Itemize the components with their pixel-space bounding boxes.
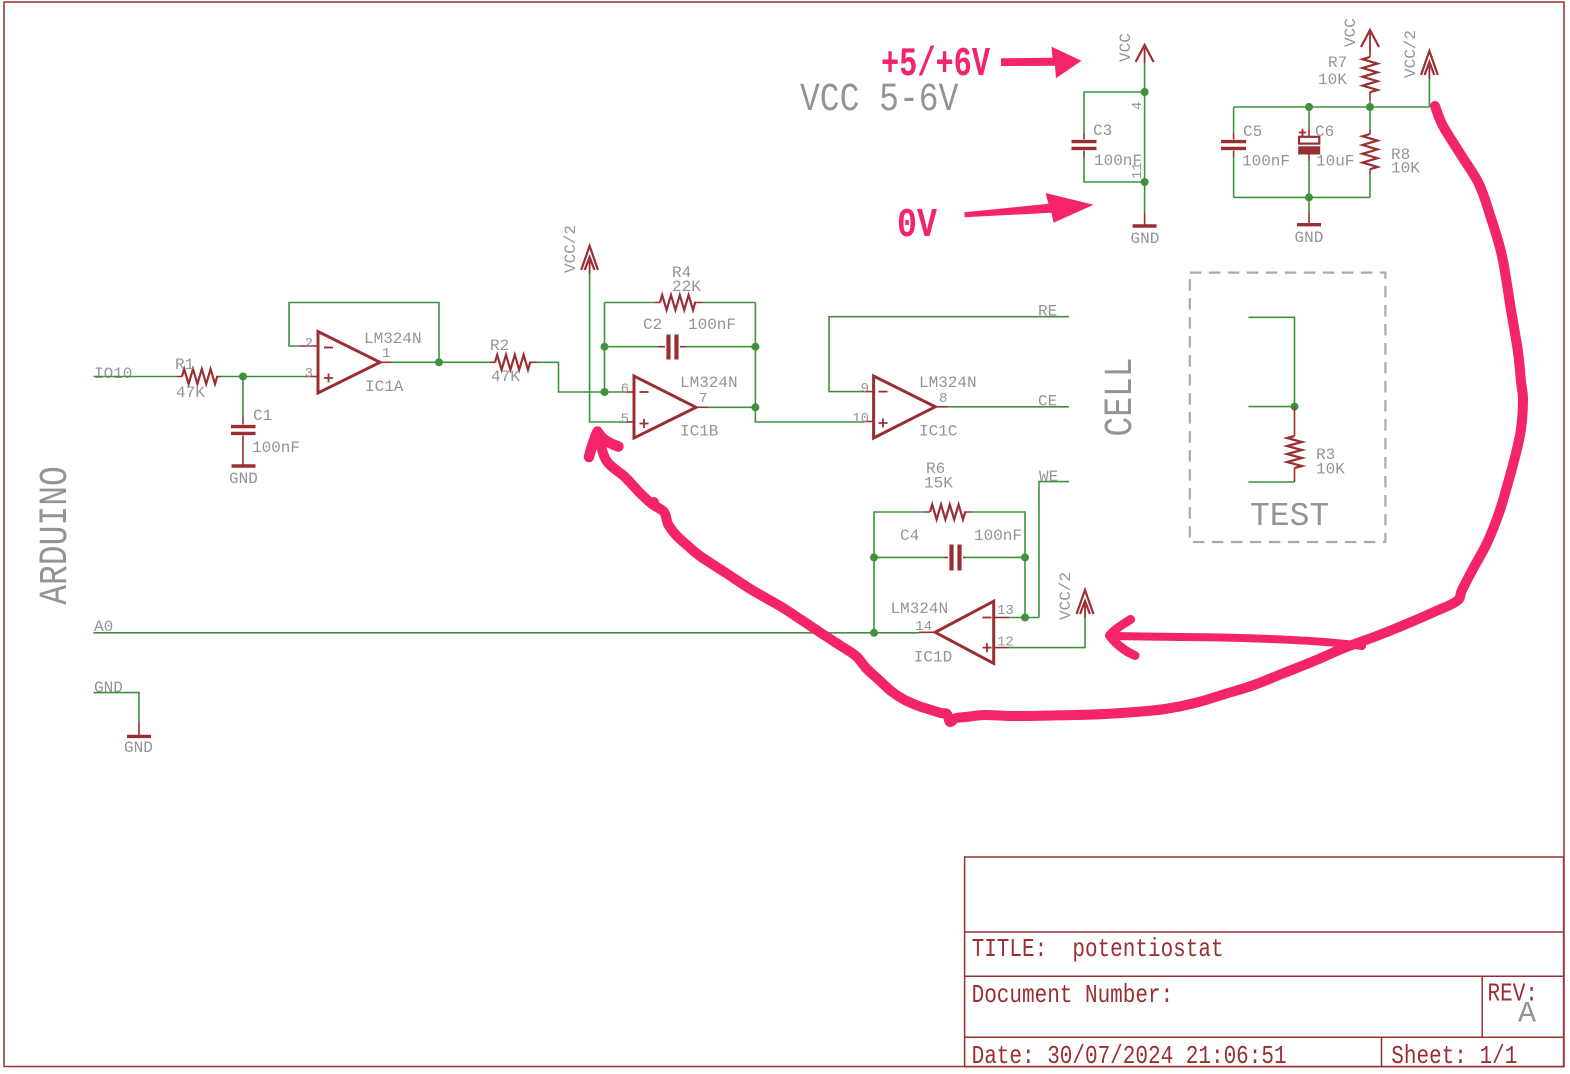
svg-text:2: 2	[305, 336, 313, 352]
supply VCC/2 symbol (top right)	[1421, 51, 1438, 79]
op-amp IC1B	[624, 376, 708, 438]
wire C3 loop left branch	[1084, 92, 1145, 182]
svg-text:C1: C1	[253, 407, 272, 425]
svg-text:10K: 10K	[1391, 160, 1420, 178]
resistor R3	[1287, 407, 1302, 482]
svg-text:IC1C: IC1C	[919, 423, 957, 441]
svg-text:Sheet: 1/1: Sheet: 1/1	[1391, 1042, 1517, 1072]
svg-text:R2: R2	[490, 337, 509, 355]
node junction bottom rail	[1305, 193, 1313, 201]
svg-text:VCC: VCC	[1342, 18, 1360, 47]
wire VCC/2 down to rail	[1428, 79, 1430, 107]
wire IC1C pin9 to RE	[829, 317, 1069, 392]
wire VCC/2 down to IC1B pin5	[590, 274, 624, 422]
svg-text:GND: GND	[1131, 230, 1160, 248]
TEST cell dashed box	[1190, 273, 1386, 542]
wire C6 branch	[1308, 107, 1310, 197]
svg-text:Date: 30/07/2024 21:06:51: Date: 30/07/2024 21:06:51	[972, 1042, 1287, 1072]
svg-text:8: 8	[939, 391, 947, 407]
wire junction to IC1D output	[874, 632, 919, 634]
wire IC1B output to node	[708, 406, 755, 408]
wire test cell WE	[1248, 481, 1294, 483]
annotation branch arrow to VCC/2	[1110, 620, 1363, 656]
wire IC1A feedback loop	[289, 303, 439, 363]
wire left loop vertical (R6/C4)	[874, 512, 1025, 633]
svg-text:VCC/2: VCC/2	[1402, 30, 1420, 78]
op-amp IC1D (mirrored)	[919, 601, 1009, 663]
svg-text:LM324N: LM324N	[919, 374, 977, 392]
svg-text:LM324N: LM324N	[680, 374, 738, 392]
resistor R2	[490, 355, 537, 370]
svg-text:A0: A0	[94, 618, 113, 636]
svg-text:100nF: 100nF	[1242, 153, 1290, 171]
svg-text:C3: C3	[1093, 122, 1112, 140]
svg-text:7: 7	[699, 391, 707, 407]
svg-text:100nF: 100nF	[1094, 152, 1142, 170]
node junction C4 right	[1021, 553, 1029, 561]
svg-text:3: 3	[305, 366, 313, 382]
svg-text:GND: GND	[229, 470, 258, 488]
capacitor C6 (electrolytic)	[1299, 129, 1320, 161]
svg-text:WE: WE	[1039, 468, 1058, 486]
wire feedback top rail (R4)	[605, 302, 756, 304]
svg-text:IC1A: IC1A	[365, 378, 404, 396]
wire node to GND2	[1308, 197, 1310, 212]
node junction C4 left	[870, 553, 878, 561]
svg-text:R7: R7	[1328, 54, 1347, 72]
wire GND net	[94, 693, 140, 723]
svg-text:+5/+6V: +5/+6V	[881, 42, 990, 88]
wire node up to feedback rail	[604, 303, 606, 393]
ground symbol (below C3)	[1133, 213, 1157, 226]
svg-text:100nF: 100nF	[688, 316, 736, 334]
svg-text:CELL: CELL	[1098, 357, 1143, 436]
node junction VCC/C3 top	[1141, 88, 1149, 96]
capacitor C1	[231, 417, 256, 465]
svg-text:Document Number:: Document Number:	[972, 981, 1174, 1011]
svg-text:GND: GND	[1295, 229, 1324, 247]
svg-text:10uF: 10uF	[1316, 153, 1354, 171]
svg-text:10K: 10K	[1316, 461, 1345, 479]
svg-text:4: 4	[1130, 102, 1146, 110]
annotation arrow to GND	[965, 193, 1094, 223]
svg-text:14: 14	[915, 619, 932, 635]
capacitor C3	[1072, 133, 1097, 157]
capacitor C5	[1221, 133, 1246, 157]
node junction R1/C1	[239, 373, 247, 381]
wire C2 row	[605, 346, 756, 348]
svg-text:VCC/2: VCC/2	[1057, 572, 1075, 620]
node junction C2 right	[751, 343, 759, 351]
node junction IC1B output	[751, 403, 759, 411]
svg-text:C2: C2	[643, 316, 662, 334]
wire VCC to node	[1144, 63, 1146, 92]
wire R2 to IC1B input node	[537, 362, 605, 392]
svg-text:5: 5	[621, 412, 629, 428]
node junction IC1A output	[435, 358, 443, 366]
svg-text:CE: CE	[1038, 393, 1057, 411]
svg-text:1: 1	[382, 346, 390, 362]
capacitor C2	[658, 335, 686, 360]
svg-text:IO10: IO10	[94, 365, 132, 383]
node junction C6 top	[1305, 103, 1313, 111]
svg-text:100nF: 100nF	[974, 527, 1022, 545]
wire IC1C output CE	[948, 406, 1069, 408]
node junction C2 left	[601, 343, 609, 351]
wire A0 line	[94, 632, 875, 634]
node junction test cell	[1291, 403, 1299, 411]
node junction C3 bottom	[1141, 178, 1149, 186]
svg-text:22K: 22K	[672, 278, 701, 296]
wire bottom rail C5/C6/R8	[1234, 196, 1370, 198]
annotation arrow to VCC	[1001, 47, 1082, 78]
supply VCC/2 symbol (right of IC1D)	[1077, 590, 1094, 618]
op-amp IC1C	[864, 376, 948, 438]
svg-text:ARDUINO: ARDUINO	[33, 466, 78, 605]
svg-text:LM324N: LM324N	[364, 330, 422, 348]
node junction A0/IC1D output	[870, 629, 878, 637]
svg-text:13: 13	[997, 603, 1014, 619]
resistor R4	[655, 295, 703, 310]
svg-text:VCC/2: VCC/2	[562, 225, 580, 273]
wire R7 to rail	[1369, 100, 1371, 107]
wire main VCC vertical	[1144, 92, 1146, 182]
svg-text:VCC: VCC	[1117, 33, 1135, 62]
svg-text:R1: R1	[175, 356, 194, 374]
wire WE net	[1039, 482, 1069, 618]
svg-text:IC1D: IC1D	[914, 649, 952, 667]
svg-text:TITLE: potentiostat: TITLE: potentiostat	[972, 935, 1224, 965]
svg-text:9: 9	[861, 381, 869, 397]
svg-text:10: 10	[852, 411, 869, 427]
svg-text:0V: 0V	[897, 203, 937, 249]
wire R1 to IC1A pin3	[221, 376, 306, 378]
wire junction down to C1	[242, 377, 244, 418]
svg-text:15K: 15K	[924, 475, 953, 493]
svg-text:C6: C6	[1315, 123, 1334, 141]
resistor R8	[1363, 107, 1378, 197]
svg-text:6: 6	[621, 382, 629, 398]
ground symbol (bottom left)	[127, 722, 151, 736]
svg-text:LM324N: LM324N	[891, 600, 949, 618]
op-amp IC1A	[300, 332, 391, 394]
wire node to GND	[1144, 182, 1146, 213]
svg-text:100nF: 100nF	[252, 439, 300, 457]
annotation big curved arrow (hand drawn)	[589, 106, 1523, 722]
wire IC1D pin13 to node	[1009, 617, 1039, 619]
wire C5 branch	[1233, 107, 1235, 197]
svg-text:C4: C4	[900, 527, 919, 545]
svg-text:GND: GND	[124, 739, 153, 757]
node junction R7/R8	[1366, 103, 1374, 111]
wire C4 row	[874, 556, 1025, 558]
svg-text:GND: GND	[94, 679, 123, 697]
node junction IC1B inverting input	[601, 388, 609, 396]
supply VCC symbol (above R7)	[1361, 30, 1379, 52]
svg-text:TEST: TEST	[1250, 498, 1329, 535]
wire top rail C5/C6/R8	[1234, 106, 1430, 108]
wire IC1A output to R2	[391, 361, 490, 363]
node junction pin13	[1021, 614, 1029, 622]
svg-text:47K: 47K	[176, 384, 205, 402]
svg-text:A: A	[1518, 998, 1536, 1032]
capacitor C4	[944, 545, 965, 571]
resistor R6	[925, 505, 972, 520]
wire IC1B minus input	[605, 391, 625, 393]
svg-text:10K: 10K	[1318, 71, 1347, 89]
resistor R1	[177, 369, 221, 384]
wire test cell RE/CE	[1248, 317, 1294, 406]
supply VCC symbol (above C3)	[1136, 45, 1154, 63]
supply VCC/2 symbol (above IC1B)	[581, 246, 598, 274]
wire right feedback vertical	[755, 303, 864, 423]
resistor R7	[1363, 51, 1378, 100]
wire IC1D pin12 to VCC/2	[1009, 618, 1085, 648]
ground symbol (below C6)	[1297, 212, 1321, 225]
svg-text:47K: 47K	[491, 368, 520, 386]
wire IO10 to R1	[94, 376, 178, 378]
svg-text:C5: C5	[1243, 123, 1262, 141]
svg-text:RE: RE	[1038, 303, 1057, 321]
ground symbol (below C1)	[232, 464, 256, 467]
title block frame	[965, 857, 1564, 1067]
svg-text:IC1B: IC1B	[680, 423, 718, 441]
